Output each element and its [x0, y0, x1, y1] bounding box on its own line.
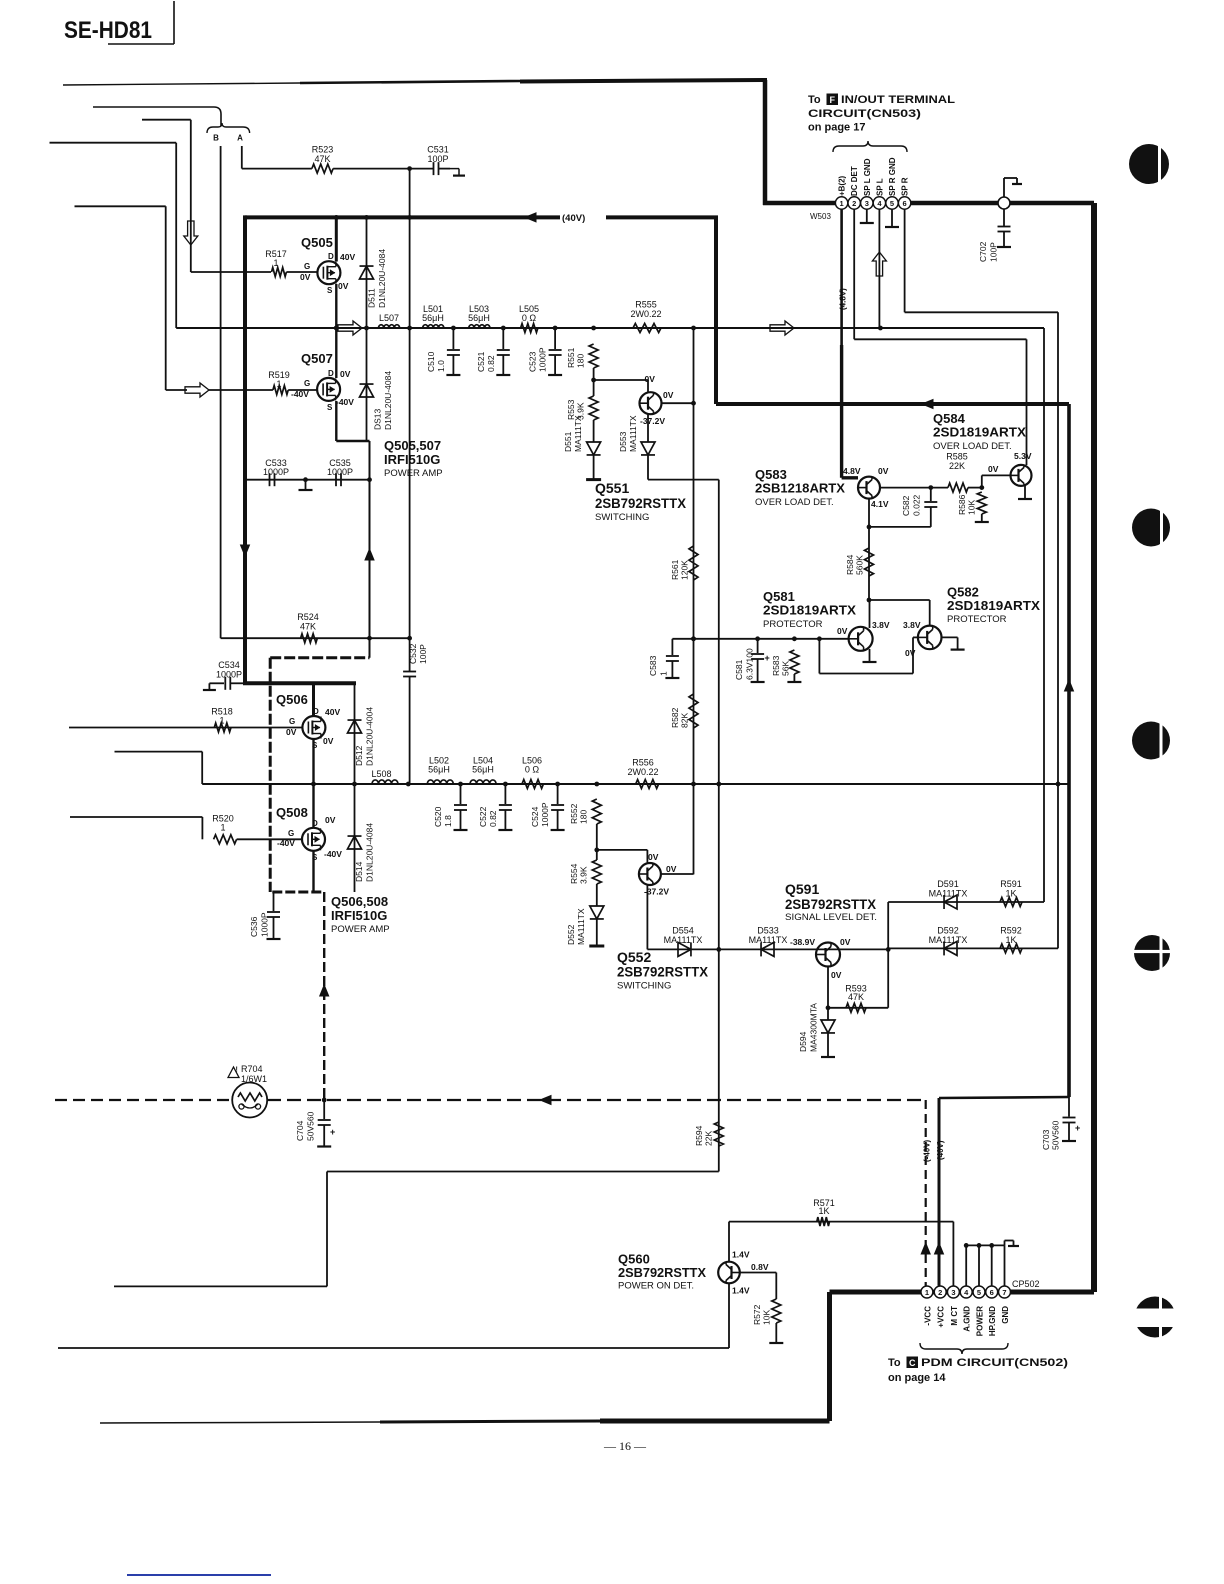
- svg-text:D553: D553: [618, 431, 628, 452]
- svg-text:MA111TX: MA111TX: [664, 935, 703, 945]
- svg-text:S: S: [327, 403, 333, 412]
- svg-text:2SD1819ARTX: 2SD1819ARTX: [763, 603, 856, 618]
- svg-text:CP502: CP502: [1012, 1279, 1040, 1289]
- svg-text:R572: R572: [752, 1304, 762, 1325]
- svg-text:DS13: DS13: [373, 408, 383, 430]
- svg-text:C582: C582: [901, 495, 911, 516]
- svg-text:6.3V100: 6.3V100: [745, 648, 755, 680]
- svg-text:C532: C532: [408, 643, 418, 664]
- svg-text:2SB792RSTTX: 2SB792RSTTX: [595, 495, 687, 511]
- svg-text:0V: 0V: [837, 626, 848, 636]
- svg-text:R586: R586: [957, 494, 967, 515]
- svg-text:Q505: Q505: [301, 235, 333, 250]
- svg-text:5: 5: [977, 1288, 981, 1297]
- svg-text:C581: C581: [734, 659, 744, 680]
- svg-text:4.8V: 4.8V: [843, 466, 861, 476]
- svg-text:0V: 0V: [338, 281, 349, 291]
- svg-text:56μH: 56μH: [422, 313, 444, 323]
- svg-text:1: 1: [659, 671, 669, 676]
- svg-text:SWITCHING: SWITCHING: [595, 512, 649, 523]
- svg-text:R594: R594: [694, 1125, 704, 1146]
- svg-text:+: +: [330, 1127, 335, 1137]
- svg-text:R551: R551: [566, 347, 576, 368]
- svg-text:W503: W503: [810, 212, 831, 221]
- svg-text:C531: C531: [427, 145, 449, 155]
- svg-text:HP.GND: HP.GND: [988, 1306, 997, 1336]
- svg-text:1000P: 1000P: [260, 912, 270, 937]
- svg-text:1: 1: [840, 199, 844, 208]
- svg-text:180: 180: [579, 810, 589, 824]
- svg-text:OVER LOAD DET.: OVER LOAD DET.: [933, 441, 1012, 452]
- svg-text:D552: D552: [566, 924, 576, 945]
- svg-text:2: 2: [938, 1288, 942, 1297]
- svg-text:22K: 22K: [949, 461, 965, 471]
- svg-text:on page 14: on page 14: [888, 1372, 946, 1384]
- svg-text:B: B: [213, 134, 219, 143]
- svg-text:SP R: SP R: [901, 177, 910, 196]
- svg-text:-40V: -40V: [324, 849, 342, 859]
- svg-text:2SB792RSTTX: 2SB792RSTTX: [617, 964, 709, 980]
- svg-text:1K: 1K: [1005, 935, 1016, 945]
- svg-text:100P: 100P: [427, 154, 448, 164]
- svg-text:Q507: Q507: [301, 351, 333, 366]
- svg-text:+: +: [765, 653, 770, 663]
- svg-text:6: 6: [990, 1288, 994, 1297]
- svg-text:+B(2): +B(2): [838, 175, 847, 196]
- svg-text:IRFI510G: IRFI510G: [384, 452, 440, 467]
- svg-text:R583: R583: [771, 655, 781, 676]
- svg-text:R584: R584: [845, 554, 855, 575]
- svg-text:C704: C704: [295, 1120, 305, 1141]
- svg-text:R556: R556: [632, 758, 654, 768]
- svg-text:1.4V: 1.4V: [732, 1286, 750, 1296]
- svg-text:MA111TX: MA111TX: [576, 908, 586, 945]
- svg-text:1.4V: 1.4V: [732, 1250, 750, 1260]
- svg-text:R591: R591: [1000, 879, 1022, 889]
- svg-text:D512: D512: [354, 745, 364, 766]
- svg-text:Q506,508: Q506,508: [331, 894, 388, 909]
- svg-text:R585: R585: [946, 452, 968, 462]
- svg-text:3: 3: [865, 199, 869, 208]
- svg-text:SP R GND: SP R GND: [888, 157, 897, 196]
- svg-text:!: !: [236, 1067, 238, 1074]
- svg-text:D1NL20U-4084: D1NL20U-4084: [377, 249, 387, 308]
- svg-text:PDM CIRCUIT(CN502): PDM CIRCUIT(CN502): [921, 1357, 1068, 1369]
- svg-text:0 Ω: 0 Ω: [525, 765, 540, 775]
- svg-text:GND: GND: [1001, 1306, 1010, 1324]
- svg-text:120K: 120K: [680, 560, 690, 580]
- svg-text:-37.2V: -37.2V: [640, 416, 665, 426]
- svg-text:10K: 10K: [967, 500, 977, 515]
- svg-text:C702: C702: [978, 241, 988, 262]
- svg-text:0.8V: 0.8V: [751, 1262, 769, 1272]
- svg-text:1.8: 1.8: [443, 815, 453, 827]
- svg-text:R561: R561: [670, 559, 680, 580]
- svg-text:0V: 0V: [300, 272, 311, 282]
- svg-text:L507: L507: [379, 313, 399, 323]
- svg-text:C536: C536: [249, 916, 259, 937]
- svg-text:D: D: [328, 369, 334, 378]
- svg-text:C524: C524: [530, 806, 540, 827]
- svg-text:82K: 82K: [680, 713, 690, 728]
- svg-text:DC DET: DC DET: [850, 166, 859, 196]
- svg-text:5.3V: 5.3V: [1014, 451, 1032, 461]
- svg-text:0.82: 0.82: [488, 810, 498, 827]
- svg-text:0V: 0V: [905, 648, 916, 658]
- svg-text:1K: 1K: [1005, 889, 1016, 899]
- svg-text:L508: L508: [371, 769, 391, 779]
- svg-text:D1NL20U-4004: D1NL20U-4004: [365, 707, 375, 766]
- svg-text:2SB792RSTTX: 2SB792RSTTX: [618, 1265, 706, 1280]
- svg-text:1000P: 1000P: [538, 347, 548, 372]
- svg-text:C534: C534: [218, 660, 240, 670]
- svg-text:1.0: 1.0: [436, 360, 446, 372]
- svg-text:0V: 0V: [840, 937, 851, 947]
- svg-text:6: 6: [903, 199, 907, 208]
- svg-text:0V: 0V: [340, 369, 351, 379]
- svg-text:0V: 0V: [325, 815, 336, 825]
- svg-text:S: S: [327, 286, 333, 295]
- svg-text:— 16 —: — 16 —: [603, 1439, 647, 1453]
- svg-text:1000P: 1000P: [216, 670, 242, 680]
- svg-text:D551: D551: [563, 431, 573, 452]
- svg-text:R524: R524: [297, 612, 319, 622]
- svg-text:PROTECTOR: PROTECTOR: [947, 614, 1007, 625]
- svg-text:CIRCUIT(CN503): CIRCUIT(CN503): [808, 108, 921, 120]
- svg-text:+: +: [1075, 1123, 1080, 1133]
- svg-text:R552: R552: [569, 803, 579, 824]
- svg-text:G: G: [288, 829, 294, 838]
- svg-text:180: 180: [576, 354, 586, 368]
- svg-text:POWER: POWER: [976, 1306, 985, 1336]
- svg-text:50V560: 50V560: [1051, 1120, 1061, 1150]
- svg-text:MA111TX: MA111TX: [929, 889, 968, 899]
- svg-text:47K: 47K: [314, 154, 330, 164]
- svg-text:MA111TX: MA111TX: [628, 415, 638, 452]
- svg-text:SE-HD81: SE-HD81: [64, 17, 152, 44]
- svg-text:2SD1819ARTX: 2SD1819ARTX: [933, 425, 1026, 440]
- svg-text:50V560: 50V560: [306, 1111, 316, 1141]
- svg-text:22K: 22K: [704, 1131, 714, 1146]
- svg-text:47K: 47K: [848, 992, 864, 1002]
- svg-text:A: A: [237, 134, 243, 143]
- svg-text:Q551: Q551: [595, 480, 629, 496]
- svg-text:R554: R554: [569, 863, 579, 884]
- svg-text:2: 2: [852, 199, 856, 208]
- svg-text:D592: D592: [937, 926, 959, 936]
- svg-text:IN/OUT TERMINAL: IN/OUT TERMINAL: [841, 94, 955, 106]
- svg-text:2SB792RSTTX: 2SB792RSTTX: [785, 896, 877, 912]
- svg-text:R704: R704: [241, 1064, 263, 1074]
- svg-text:2SD1819ARTX: 2SD1819ARTX: [947, 598, 1040, 613]
- svg-text:-40V: -40V: [291, 389, 309, 399]
- svg-text:SP L: SP L: [875, 178, 884, 196]
- svg-text:1: 1: [219, 716, 224, 726]
- svg-text:3.8V: 3.8V: [903, 620, 921, 630]
- svg-text:4.1V: 4.1V: [871, 499, 889, 509]
- svg-text:56μH: 56μH: [472, 765, 494, 775]
- svg-text:(-40V): (-40V): [923, 1139, 932, 1162]
- svg-text:0.022: 0.022: [912, 494, 922, 516]
- svg-text:MA111TX: MA111TX: [749, 935, 788, 945]
- svg-text:0V: 0V: [878, 466, 889, 476]
- svg-text:Q591: Q591: [785, 881, 819, 897]
- svg-text:G: G: [304, 379, 310, 388]
- svg-text:1K: 1K: [818, 1206, 829, 1216]
- svg-text:10K: 10K: [762, 1310, 772, 1325]
- svg-text:C703: C703: [1041, 1129, 1051, 1150]
- svg-text:D554: D554: [672, 926, 694, 936]
- svg-text:To: To: [808, 94, 821, 106]
- svg-text:A.GND: A.GND: [963, 1306, 972, 1332]
- svg-text:D: D: [313, 707, 319, 716]
- svg-text:D1NL20U-4084: D1NL20U-4084: [383, 371, 393, 430]
- svg-text:C: C: [909, 1358, 916, 1368]
- svg-text:Q506: Q506: [276, 692, 308, 707]
- svg-text:D1NL20U-4084: D1NL20U-4084: [365, 823, 375, 882]
- svg-text:0V: 0V: [663, 390, 674, 400]
- svg-text:3.8V: 3.8V: [872, 620, 890, 630]
- svg-text:47K: 47K: [300, 622, 316, 632]
- svg-text:0V: 0V: [831, 970, 842, 980]
- svg-text:0V: 0V: [323, 736, 334, 746]
- svg-text:0V: 0V: [666, 864, 677, 874]
- svg-text:-40V: -40V: [336, 397, 354, 407]
- svg-text:56μH: 56μH: [428, 765, 450, 775]
- svg-text:100P: 100P: [418, 644, 428, 664]
- svg-text:SWITCHING: SWITCHING: [617, 981, 671, 992]
- svg-text:1/6W1: 1/6W1: [241, 1074, 267, 1084]
- svg-text:POWER AMP: POWER AMP: [384, 468, 443, 479]
- svg-text:D594: D594: [798, 1031, 808, 1052]
- svg-text:-VCC: -VCC: [923, 1306, 932, 1326]
- svg-text:3.9K: 3.9K: [579, 866, 589, 884]
- svg-text:D511: D511: [367, 288, 377, 308]
- svg-text:1: 1: [273, 258, 278, 268]
- svg-text:+VCC: +VCC: [937, 1306, 946, 1328]
- svg-text:C521: C521: [476, 351, 486, 372]
- svg-text:POWER ON DET.: POWER ON DET.: [618, 1281, 694, 1292]
- svg-text:C520: C520: [433, 806, 443, 827]
- svg-text:0V: 0V: [286, 727, 297, 737]
- svg-text:G: G: [289, 717, 295, 726]
- svg-text:100P: 100P: [989, 242, 999, 262]
- svg-text:2W0.22: 2W0.22: [627, 767, 658, 777]
- svg-text:(40V): (40V): [562, 213, 585, 224]
- svg-text:1: 1: [276, 379, 281, 389]
- svg-text:POWER AMP: POWER AMP: [331, 924, 390, 935]
- svg-text:0 Ω: 0 Ω: [522, 313, 537, 323]
- svg-text:5: 5: [890, 199, 894, 208]
- svg-text:F: F: [830, 95, 836, 105]
- svg-text:-40V: -40V: [277, 838, 295, 848]
- svg-text:Q505,507: Q505,507: [384, 438, 441, 453]
- svg-text:-37.2V: -37.2V: [644, 887, 669, 897]
- svg-text:C583: C583: [648, 655, 658, 676]
- svg-text:(40V): (40V): [936, 1140, 945, 1160]
- svg-text:SIGNAL LEVEL DET.: SIGNAL LEVEL DET.: [785, 912, 877, 923]
- svg-text:R555: R555: [635, 300, 657, 310]
- svg-text:40V: 40V: [325, 707, 340, 717]
- svg-text:To: To: [888, 1357, 901, 1369]
- svg-text:SP L GND: SP L GND: [863, 158, 872, 196]
- svg-text:C510: C510: [426, 351, 436, 372]
- svg-text:C522: C522: [478, 806, 488, 827]
- svg-text:PROTECTOR: PROTECTOR: [763, 619, 823, 630]
- svg-text:D533: D533: [757, 926, 779, 936]
- svg-text:3: 3: [951, 1288, 955, 1297]
- svg-text:1000P: 1000P: [263, 467, 289, 477]
- svg-text:0V: 0V: [988, 464, 999, 474]
- svg-text:R523: R523: [312, 145, 334, 155]
- svg-text:D591: D591: [937, 879, 959, 889]
- svg-text:G: G: [304, 262, 310, 271]
- svg-text:0V: 0V: [648, 852, 659, 862]
- svg-text:1: 1: [925, 1288, 929, 1297]
- svg-text:-38.9V: -38.9V: [790, 937, 815, 947]
- svg-text:2SB1218ARTX: 2SB1218ARTX: [755, 481, 845, 496]
- svg-text:1000P: 1000P: [540, 802, 550, 827]
- svg-text:(4.8V): (4.8V): [839, 288, 848, 310]
- svg-text:D: D: [328, 252, 334, 261]
- svg-text:on page 17: on page 17: [808, 122, 865, 134]
- svg-text:56μH: 56μH: [468, 313, 490, 323]
- svg-text:0V: 0V: [645, 374, 656, 384]
- svg-text:560K: 560K: [855, 555, 865, 575]
- svg-text:C523: C523: [528, 351, 538, 372]
- svg-text:IRFI510G: IRFI510G: [331, 908, 387, 923]
- svg-text:OVER LOAD DET.: OVER LOAD DET.: [755, 497, 834, 508]
- svg-text:M CT: M CT: [950, 1306, 959, 1326]
- svg-text:R592: R592: [1000, 926, 1022, 936]
- svg-text:MA4300MTA: MA4300MTA: [809, 1003, 819, 1052]
- svg-text:D514: D514: [354, 861, 364, 882]
- svg-text:1: 1: [220, 823, 225, 833]
- svg-text:MA111TX: MA111TX: [929, 935, 968, 945]
- svg-text:1000P: 1000P: [327, 467, 353, 477]
- svg-text:56K: 56K: [781, 661, 791, 676]
- svg-text:2W0.22: 2W0.22: [630, 309, 661, 319]
- svg-text:MA111TX: MA111TX: [573, 415, 583, 452]
- svg-text:0.82: 0.82: [486, 355, 496, 372]
- svg-text:R582: R582: [670, 707, 680, 728]
- svg-text:D: D: [312, 819, 318, 828]
- svg-text:Q508: Q508: [276, 805, 308, 820]
- svg-text:40V: 40V: [340, 252, 355, 262]
- svg-text:7: 7: [1002, 1288, 1006, 1297]
